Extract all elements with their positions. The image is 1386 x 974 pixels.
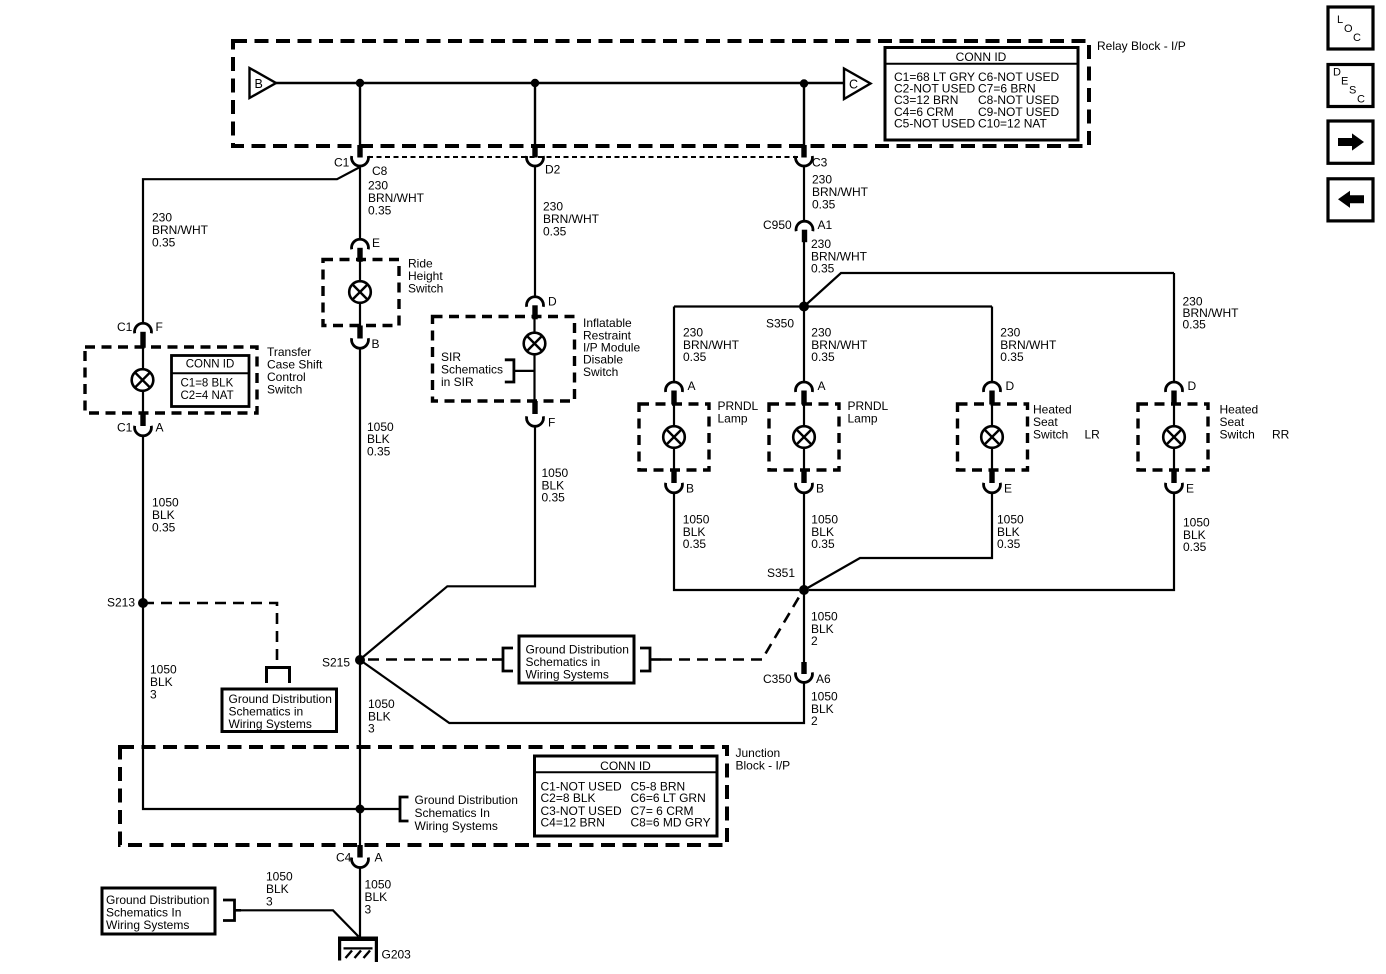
- svg-text:Lamp: Lamp: [848, 411, 878, 425]
- wire: ride height B down to C4 (through S215): [359, 348, 361, 845]
- ground distribution reference box (S215): [519, 636, 634, 683]
- wire label 230 BRN/WHT 0.35 left branch: [152, 211, 209, 250]
- CONN ID table of transfer case switch: [172, 356, 250, 407]
- wire label 230 BRN/WHT 0.35 branch 2: [811, 326, 868, 365]
- svg-text:S350: S350: [766, 316, 794, 330]
- node on bus at D2 drop: [531, 79, 539, 87]
- bracket right of bottom left reference box: [223, 900, 241, 921]
- connector B (arc) PRNDL lamp 2: [796, 483, 813, 493]
- bracket to ground distribution box (S213): [267, 668, 290, 684]
- connector D2 (pin stub): [532, 145, 537, 158]
- wire label 1050 BLK 2 above C350: [811, 610, 838, 649]
- connector C4 pin A (stub): [357, 845, 362, 858]
- svg-text:Relay Block - I/P: Relay Block - I/P: [1097, 39, 1186, 53]
- wire label 230 BRN/WHT 0.35 below C950: [811, 237, 868, 276]
- ground distribution reference box (S213): [222, 689, 337, 732]
- wire label 1050 BLK 0.35 branch 2: [811, 513, 838, 552]
- CONN ID table of junction block: [535, 756, 718, 836]
- connector A (stub) PRNDL lamp 2: [801, 391, 806, 405]
- wire label 1050 BLK 3 bottom left: [266, 870, 293, 909]
- svg-text:0.35: 0.35: [1000, 350, 1024, 364]
- wire: D2 down to SIR D: [534, 166, 536, 298]
- lamp symbol PRNDL 1: [663, 404, 685, 470]
- wire label 230 BRN/WHT 0.35 below D2: [543, 200, 600, 239]
- heated seat switch RR (dashed box): [1138, 403, 1290, 470]
- wire: S351 down to C350: [803, 590, 805, 663]
- svg-text:L: L: [1337, 14, 1343, 26]
- node where ground rail meets C4 wire: [356, 805, 365, 814]
- wire: drop to heated seat LR: [991, 307, 993, 383]
- svg-text:Switch: Switch: [1220, 428, 1255, 442]
- svg-text:C4: C4: [336, 851, 352, 865]
- wire: C8 down to ride height E: [359, 166, 361, 241]
- svg-text:2: 2: [811, 634, 818, 648]
- icon button DESC: [1328, 65, 1373, 107]
- wire: reference to ground G203: [241, 910, 359, 936]
- svg-text:D2: D2: [545, 163, 561, 177]
- svg-text:in SIR: in SIR: [441, 375, 474, 389]
- ground distribution note text in junction block: [415, 793, 518, 833]
- connector D (arc) heated seat RR: [1166, 382, 1183, 392]
- svg-text:F: F: [156, 320, 163, 334]
- connector A (stub) PRNDL lamp 1: [671, 391, 676, 405]
- connector C1 pin A (arc): [135, 426, 152, 436]
- svg-text:Schematics In: Schematics In: [415, 806, 490, 820]
- connector C1-C8 (arc): [352, 156, 369, 166]
- connector C1 pin F (stub): [140, 332, 145, 348]
- svg-text:C1: C1: [334, 156, 350, 170]
- wire: heated seat RR E to S351: [809, 493, 1174, 590]
- svg-text:Block - I/P: Block - I/P: [736, 758, 791, 772]
- connector D (stub) heated seat LR: [989, 391, 994, 405]
- wire: transfer switch A down to junction block, elbow to ground ref: [143, 436, 400, 810]
- svg-text:F: F: [548, 416, 555, 430]
- svg-text:C6=6 LT GRN: C6=6 LT GRN: [631, 791, 706, 805]
- connector C350 pin A6 (arc): [796, 672, 813, 682]
- connector F (stub) SIR: [532, 401, 537, 414]
- svg-text:A: A: [818, 379, 826, 393]
- wire: bus from B to C: [276, 82, 844, 85]
- icon button LOC: [1328, 7, 1373, 49]
- wire label 1050 BLK 0.35: [152, 496, 179, 535]
- connector C3 (pin stub): [801, 145, 806, 158]
- bracket right of ground distribution box (S215): [640, 648, 661, 671]
- heated seat switch LR (dashed box): [958, 403, 1101, 470]
- wire label 230 BRN/WHT 0.35 below C8: [368, 179, 425, 218]
- dashed wire from S215 to ground distribution reference: [368, 658, 493, 661]
- wire: drop to heated seat RR: [1173, 273, 1175, 383]
- svg-text:Lamp: Lamp: [718, 411, 748, 425]
- connector F (arc): [527, 416, 544, 426]
- wire: drop to C3: [803, 83, 805, 147]
- svg-text:0.35: 0.35: [812, 197, 836, 211]
- lamp symbol heated seat RR: [1163, 404, 1185, 470]
- connector C3 (arc): [796, 156, 813, 166]
- svg-text:3: 3: [368, 722, 375, 736]
- connector D2 (arc): [527, 156, 544, 166]
- svg-text:C8=6 MD GRY: C8=6 MD GRY: [631, 815, 711, 829]
- wire label 1050 BLK 3 below C4: [365, 878, 392, 917]
- wire: PRNDL lamp 2 B to S351: [803, 493, 805, 590]
- lamp symbol in ride height switch: [349, 260, 371, 326]
- svg-text:A1: A1: [818, 218, 833, 232]
- svg-text:A: A: [156, 421, 164, 435]
- svg-text:B: B: [816, 482, 824, 496]
- svg-text:Wiring Systems: Wiring Systems: [526, 667, 609, 681]
- svg-text:0.35: 0.35: [683, 537, 707, 551]
- svg-text:E: E: [372, 236, 380, 250]
- lamp symbol in transfer case switch: [132, 347, 154, 413]
- SIR schematics reference note: [441, 350, 534, 389]
- svg-text:C2=8 BLK: C2=8 BLK: [541, 791, 596, 805]
- svg-text:A: A: [688, 379, 696, 393]
- svg-text:C5-NOT USED: C5-NOT USED: [894, 116, 975, 130]
- wire: PRNDL lamp 1 B to S351: [674, 493, 799, 590]
- svg-text:C1: C1: [117, 421, 133, 435]
- svg-text:0.35: 0.35: [543, 224, 567, 238]
- svg-text:CONN ID: CONN ID: [600, 759, 651, 773]
- svg-text:0.35: 0.35: [811, 537, 835, 551]
- svg-text:C1=8 BLK: C1=8 BLK: [181, 377, 234, 389]
- svg-text:0.35: 0.35: [152, 520, 176, 534]
- connector D (arc) heated seat LR: [984, 382, 1001, 392]
- svg-text:C: C: [849, 78, 858, 92]
- ground symbol G203: [338, 937, 411, 962]
- svg-text:G203: G203: [382, 948, 412, 962]
- splice node S215: [322, 655, 365, 670]
- transfer case shift control switch (dashed box): [85, 345, 323, 413]
- svg-text:C2=4 NAT: C2=4 NAT: [181, 390, 234, 402]
- svg-text:E: E: [1186, 482, 1194, 496]
- dashed wire from S213 to ground distribution reference: [143, 603, 277, 667]
- ground distribution reference box (bottom left): [102, 888, 215, 934]
- inflatable restraint I/P module disable switch (dashed box): [433, 316, 641, 401]
- wire: heated seat LR E to S351: [804, 493, 992, 590]
- svg-text:C4=12 BRN: C4=12 BRN: [541, 815, 605, 829]
- lamp symbol heated seat LR: [981, 404, 1003, 470]
- svg-text:RR: RR: [1272, 428, 1290, 442]
- connector C4 pin A (arc): [352, 858, 369, 868]
- svg-text:B: B: [372, 337, 380, 351]
- connector C1-C8 (pin stub): [357, 145, 362, 158]
- svg-text:B: B: [686, 482, 694, 496]
- wire: SIR F down to S215: [360, 426, 535, 660]
- svg-text:B: B: [255, 77, 263, 91]
- connector C1 pin A (stub): [140, 413, 145, 426]
- wire label 230 BRN/WHT 0.35 below C3: [812, 173, 869, 212]
- svg-text:C: C: [1357, 94, 1365, 106]
- splice node S351: [767, 566, 809, 595]
- wire label 230 BRN/WHT 0.35 branch 4: [1183, 295, 1240, 332]
- wire label 230 BRN/WHT 0.35 branch 1: [683, 326, 740, 365]
- svg-text:0.35: 0.35: [367, 444, 391, 458]
- svg-text:3: 3: [150, 687, 157, 701]
- off-page arrow C: [844, 69, 871, 100]
- connector B (arc): [352, 338, 369, 348]
- svg-text:Switch: Switch: [1033, 428, 1068, 442]
- svg-text:3: 3: [365, 902, 372, 916]
- svg-text:O: O: [1344, 23, 1353, 35]
- svg-text:3: 3: [266, 894, 273, 908]
- svg-text:CONN ID: CONN ID: [186, 359, 235, 371]
- connector B (arc) PRNDL lamp 1: [666, 483, 683, 493]
- PRNDL lamp 2 (dashed box): [769, 399, 889, 470]
- junction block I/P dashed enclosure: [120, 746, 790, 845]
- splice node S350: [766, 302, 809, 331]
- svg-text:0.35: 0.35: [1183, 540, 1207, 554]
- svg-text:E: E: [1341, 76, 1348, 88]
- svg-text:0.35: 0.35: [811, 350, 835, 364]
- wire: drop to PRNDL lamp 2: [803, 307, 805, 383]
- connector D (stub) heated seat RR: [1171, 391, 1176, 405]
- wire label 1050 BLK 3 right of S215 wire: [368, 697, 395, 736]
- svg-text:C10=12 NAT: C10=12 NAT: [978, 116, 1047, 130]
- wire label 1050 BLK 2 below C350: [811, 690, 838, 729]
- bracket to ground distribution note in junction block: [400, 797, 409, 821]
- svg-text:A: A: [375, 851, 383, 865]
- dotted connector face line C1 to C3: [368, 156, 800, 158]
- wire: drop to D2: [534, 83, 536, 147]
- svg-text:C1: C1: [117, 320, 133, 334]
- relay block I/P dashed enclosure: [233, 39, 1186, 146]
- svg-text:D: D: [1188, 379, 1197, 393]
- svg-text:0.35: 0.35: [811, 262, 835, 276]
- connector C950 pin A1 (arc): [796, 221, 813, 231]
- wire: C950 to S350: [803, 242, 805, 307]
- svg-text:0.35: 0.35: [368, 203, 392, 217]
- lamp symbol PRNDL 2: [793, 404, 815, 470]
- svg-text:0.35: 0.35: [152, 235, 176, 249]
- node on bus at C1 drop: [356, 79, 364, 87]
- svg-text:S215: S215: [322, 656, 350, 670]
- svg-text:CONN ID: CONN ID: [956, 50, 1007, 64]
- svg-text:E: E: [1004, 482, 1012, 496]
- dashed wire from reference box to S351: [661, 592, 802, 660]
- icon button next arrow: [1328, 121, 1373, 163]
- svg-text:Wiring Systems: Wiring Systems: [229, 717, 312, 731]
- icon button back arrow: [1328, 179, 1373, 221]
- svg-text:Wiring Systems: Wiring Systems: [106, 918, 189, 932]
- wire: drop to PRNDL lamp 1: [673, 307, 675, 383]
- wire: drop to C1-C8: [359, 83, 361, 147]
- connector E (stub): [357, 248, 362, 262]
- svg-text:C350: C350: [763, 672, 792, 686]
- wire: C3 down to C950: [803, 166, 805, 222]
- svg-text:D: D: [1333, 67, 1341, 79]
- svg-text:0.35: 0.35: [542, 491, 566, 505]
- svg-text:Ground Distribution: Ground Distribution: [415, 793, 518, 807]
- svg-text:C950: C950: [763, 218, 792, 232]
- connector D (stub): [532, 305, 537, 319]
- wire label 1050 BLK 0.35 below B: [367, 420, 394, 459]
- connector E (arc) heated seat RR: [1166, 483, 1183, 493]
- connector A (arc) PRNDL lamp 1: [666, 382, 683, 392]
- wire label 1050 BLK 3: [150, 663, 177, 702]
- node on bus at C3 drop: [800, 79, 808, 87]
- connector B (stub) PRNDL lamp 2: [801, 470, 806, 483]
- wire: C8 branch to transfer case switch: [143, 167, 360, 323]
- wire label 230 BRN/WHT 0.35 branch 3: [1000, 326, 1057, 365]
- wire label 1050 BLK 0.35 branch 4: [1183, 516, 1210, 555]
- wire: S350 horizontal rail: [674, 305, 992, 307]
- wire: S350 diagonal to RR branch rail: [804, 273, 1174, 307]
- PRNDL lamp 1 (dashed box): [639, 399, 759, 470]
- connector E (stub) heated seat RR: [1171, 470, 1176, 483]
- wire label 1050 BLK 0.35 below F: [542, 466, 569, 505]
- svg-text:0.35: 0.35: [683, 350, 707, 364]
- svg-text:0.35: 0.35: [1183, 318, 1207, 332]
- CONN ID table of relay block: [885, 48, 1078, 141]
- wire label 1050 BLK 0.35 branch 3: [997, 513, 1024, 552]
- connector D (arc) SIR: [527, 297, 544, 307]
- svg-text:Switch: Switch: [583, 365, 618, 379]
- connector C1 pin F (arc): [135, 323, 152, 333]
- connector E (arc) heated seat LR: [984, 483, 1001, 493]
- svg-text:Wiring Systems: Wiring Systems: [415, 819, 498, 833]
- svg-text:Switch: Switch: [267, 382, 302, 396]
- splice node S213: [107, 596, 148, 610]
- wire label 1050 BLK 0.35 branch 1: [683, 513, 710, 552]
- lamp symbol in SIR disable switch: [524, 317, 546, 402]
- connector E (stub) heated seat LR: [989, 470, 994, 483]
- wire: C4 A down to ground G203: [359, 867, 361, 938]
- svg-text:LR: LR: [1085, 428, 1101, 442]
- svg-text:2: 2: [811, 714, 818, 728]
- connector C950 pin A1 (stub): [802, 230, 807, 243]
- svg-text:C3: C3: [812, 156, 828, 170]
- ride height switch (dashed box): [323, 257, 443, 326]
- connector B (stub) PRNDL lamp 1: [671, 470, 676, 483]
- off-page arrow B: [250, 68, 277, 98]
- connector E (arc) ride height: [352, 239, 369, 249]
- svg-text:0.35: 0.35: [997, 537, 1021, 551]
- svg-text:Switch: Switch: [408, 282, 443, 296]
- svg-text:D: D: [1006, 379, 1015, 393]
- svg-text:S: S: [1349, 85, 1356, 97]
- svg-text:D: D: [548, 295, 557, 309]
- svg-text:S213: S213: [107, 596, 135, 610]
- bracket left of ground distribution box (S215): [492, 648, 513, 671]
- connector A (arc) PRNDL lamp 2: [796, 382, 813, 392]
- svg-text:A6: A6: [816, 672, 831, 686]
- svg-text:C: C: [1353, 32, 1361, 44]
- svg-text:C8: C8: [372, 164, 388, 178]
- connector C350 pin A6 (stub): [801, 662, 806, 674]
- svg-text:S351: S351: [767, 566, 795, 580]
- connector B (stub) ride height: [357, 326, 362, 339]
- wire: C350 A6 down and left to S215: [360, 660, 804, 723]
